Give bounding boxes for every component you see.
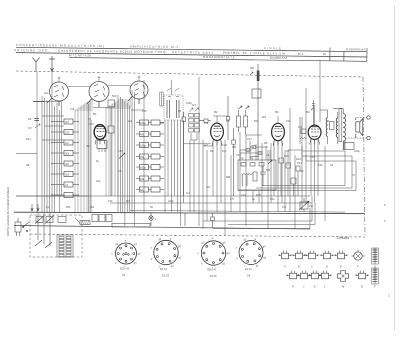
AVC line components x228 — [226, 96, 235, 196]
B1 socket outline — [97, 141, 107, 153]
svg-text:2k2: 2k2 — [90, 205, 95, 209]
left boxes x183 — [182, 112, 186, 196]
svg-text:C15: C15 — [310, 155, 315, 159]
svg-text:S1: S1 — [122, 273, 126, 277]
extra cluster wires — [203, 108, 315, 166]
AVC cluster — [240, 146, 268, 157]
svg-text:C7: C7 — [352, 173, 356, 177]
svg-text:25p: 25p — [96, 179, 101, 183]
svg-text:EF 41: EF 41 — [160, 267, 167, 271]
box under transformer — [344, 143, 354, 150]
svg-text:S2,S3: S2,S3 — [162, 274, 170, 278]
scattered value labels — [26, 91, 360, 209]
svg-text:1M: 1M — [160, 121, 164, 125]
svg-text:M: M — [342, 285, 344, 289]
power supply dashed box — [30, 215, 82, 257]
svg-text:W.: W. — [323, 52, 327, 56]
svg-text:25p: 25p — [270, 197, 275, 201]
svg-text:C26: C26 — [241, 193, 246, 197]
svg-text:4n7: 4n7 — [204, 143, 209, 147]
svg-text:FINALE EL41 5W: FINALE EL41 5W — [250, 51, 285, 55]
mains connector — [15, 218, 21, 236]
svg-text:C21: C21 — [247, 137, 252, 141]
chassis arrows — [31, 204, 39, 211]
svg-text:1M: 1M — [65, 141, 69, 145]
svg-text:Rip: Rip — [309, 204, 313, 208]
tube B2 — [211, 123, 224, 145]
svg-text:25k: 25k — [140, 155, 145, 159]
svg-text:4n7: 4n7 — [186, 191, 191, 195]
svg-text:150: 150 — [250, 145, 255, 149]
svg-text:0,1: 0,1 — [46, 205, 50, 209]
svg-text:C18: C18 — [236, 153, 241, 157]
svg-text:0,1: 0,1 — [65, 183, 69, 187]
svg-text:68k: 68k — [232, 145, 237, 149]
small boxes x110 — [108, 100, 115, 196]
IF2 trimmer matrix — [189, 108, 200, 212]
svg-text:B3: B3 — [275, 110, 279, 114]
tube socket S1 — [116, 243, 137, 264]
svg-text:47k: 47k — [282, 205, 287, 209]
wire bundle mid-right — [190, 60, 325, 236]
svg-text:50k: 50k — [65, 151, 70, 155]
bus components row — [35, 215, 112, 225]
antenna coupling capacitor — [35, 119, 41, 129]
svg-text:R6: R6 — [210, 149, 214, 153]
detector sub-box — [238, 160, 276, 190]
B4 grid network — [300, 100, 315, 144]
svg-text:25p: 25p — [44, 91, 49, 95]
component pictogram row 1 — [279, 248, 379, 264]
svg-text:CF: CF — [28, 126, 32, 130]
filament bus — [14, 226, 310, 230]
svg-text:50k: 50k — [266, 168, 271, 172]
svg-text:0,1: 0,1 — [88, 117, 92, 121]
svg-text:A: A — [284, 265, 286, 269]
svg-text:S6: S6 — [247, 274, 251, 278]
tube B1 — [94, 125, 106, 145]
svg-text:0,1: 0,1 — [226, 119, 230, 123]
svg-text:EL 41: EL 41 — [245, 267, 252, 271]
svg-text:500p: 500p — [140, 165, 146, 169]
svg-text:C25: C25 — [284, 154, 289, 158]
svg-text:H: H — [292, 285, 294, 289]
svg-text:D: D — [326, 265, 328, 269]
svg-text:40k: 40k — [140, 132, 145, 136]
svg-text:M.SEMFIGLIA P.: M.SEMFIGLIA P. — [346, 47, 366, 51]
svg-text:B: B — [298, 265, 300, 269]
svg-text:2M: 2M — [65, 162, 69, 166]
title block — [14, 43, 367, 61]
component pictogram row 2 — [287, 268, 379, 284]
svg-text:C7: C7 — [286, 149, 290, 153]
tube socket S4,S5 — [201, 241, 225, 265]
svg-text:C16: C16 — [222, 143, 227, 147]
tube B3 — [272, 123, 285, 145]
smoothing choke — [320, 110, 328, 144]
wire bundle middle — [118, 80, 144, 226]
capacitor-resistor stack middle — [136, 120, 164, 192]
svg-text:0,5: 0,5 — [230, 197, 234, 201]
speaker — [356, 118, 363, 139]
IF transformer MF1 — [160, 80, 183, 120]
svg-text:50p: 50p — [140, 188, 145, 192]
svg-text:S4,S5: S4,S5 — [210, 274, 218, 278]
main HT bus — [14, 212, 365, 214]
svg-text:68k: 68k — [226, 175, 231, 179]
mid horizontals — [16, 108, 345, 213]
svg-text:DETECTRICE EB41: DETECTRICE EB41 — [172, 50, 213, 55]
terminal strip — [57, 235, 73, 257]
svg-text:(D): (D) — [250, 66, 254, 70]
svg-text:100: 100 — [286, 119, 291, 123]
terminal posts — [345, 116, 370, 140]
grid stopper box B2 — [200, 119, 211, 122]
antenna symbol — [33, 58, 40, 72]
svg-text:R12: R12 — [26, 137, 31, 141]
svg-text:FINALE: FINALE — [264, 46, 281, 50]
svg-text:PARTIE GAUCHE DU SCHEMA RAMEAU: PARTIE GAUCHE DU SCHEMA RAMEAU — [6, 187, 10, 236]
valve V3 top view — [128, 81, 148, 104]
svg-text:500: 500 — [254, 119, 259, 123]
padder capacitors IF2 — [237, 106, 250, 135]
wire bundle IF — [165, 120, 184, 226]
output transformer T1 — [333, 109, 346, 151]
svg-text:B4: B4 — [306, 110, 310, 114]
svg-text:B1: B1 — [93, 112, 97, 116]
resistor stack left labels — [65, 120, 70, 187]
B1 side wires — [89, 104, 95, 212]
page edge line — [394, 6, 396, 330]
svg-text:R12: R12 — [296, 157, 301, 161]
extra labels cluster — [210, 137, 302, 165]
tube B4 — [308, 125, 321, 144]
svg-text:4n7: 4n7 — [192, 103, 197, 107]
svg-text:ECH 42: ECH 42 — [120, 267, 130, 271]
svg-text:R8: R8 — [264, 141, 268, 145]
svg-text:R14: R14 — [297, 161, 302, 165]
svg-text:10n: 10n — [222, 149, 227, 153]
dashed bottom border — [30, 234, 365, 237]
wire bundle left — [37, 72, 62, 213]
svg-text:R15: R15 — [256, 193, 261, 197]
svg-text:500: 500 — [112, 94, 117, 98]
staircase wires under V2 — [75, 100, 93, 212]
svg-text:220p: 220p — [354, 149, 360, 153]
trimmer arrow mid — [119, 153, 125, 159]
stack middle labels — [140, 121, 146, 192]
svg-text:100p: 100p — [140, 121, 146, 125]
svg-text:BA MBA A.M: BA MBA A.M — [270, 56, 288, 60]
box near choke — [330, 122, 335, 130]
svg-text:EBC 41: EBC 41 — [208, 268, 217, 272]
tube socket S2,S3 — [154, 240, 178, 264]
valve V2 top view — [87, 82, 109, 108]
svg-text:C: C — [311, 265, 313, 269]
svg-text:300: 300 — [65, 172, 70, 176]
svg-text:4k7: 4k7 — [65, 120, 70, 124]
svg-text:150: 150 — [318, 163, 323, 167]
svg-text:1M: 1M — [126, 199, 130, 203]
wire horizontals left — [16, 116, 88, 196]
valve V1 top view — [47, 82, 69, 106]
svg-text:R9: R9 — [26, 163, 30, 167]
svg-text:N: N — [361, 285, 363, 289]
svg-text:100: 100 — [142, 109, 147, 113]
svg-text:1M: 1M — [298, 125, 302, 129]
svg-text:10n: 10n — [206, 185, 211, 189]
bottom-right routing — [203, 196, 315, 229]
svg-text:M B GA BAM B7 5A 7.2: M B GA BAM B7 5A 7.2 — [203, 55, 235, 59]
pictogram row 2 labels — [292, 285, 376, 289]
svg-text:250: 250 — [65, 130, 70, 134]
resistor stack left column — [51, 119, 79, 198]
tube socket S6 — [239, 241, 263, 265]
svg-text:B2: B2 — [214, 110, 218, 114]
resistor on bus right — [299, 198, 309, 212]
long narrow box on filament bus — [112, 223, 150, 227]
oscillator choke D — [250, 64, 261, 160]
svg-text:500: 500 — [66, 205, 71, 209]
svg-text:100: 100 — [108, 199, 113, 203]
dashed top border — [16, 71, 363, 77]
svg-text:220p: 220p — [168, 199, 174, 203]
svg-text:P: P — [374, 285, 376, 289]
svg-text:M.1: M.1 — [298, 52, 303, 56]
svg-text:2k2: 2k2 — [128, 119, 133, 123]
earth arrow symbol — [49, 56, 55, 72]
dash-dot right border — [363, 77, 365, 237]
svg-text:2k2: 2k2 — [262, 115, 267, 119]
svg-text:AMPLIFICATRICE M.F.: AMPLIFICATRICE M.F. — [130, 44, 180, 49]
svg-text:10k: 10k — [140, 177, 145, 181]
dial lamp on bus — [149, 213, 153, 226]
svg-text:K: K — [314, 285, 316, 289]
svg-text:Détails: Détails — [337, 235, 349, 240]
feedback loops right — [238, 146, 356, 191]
svg-text:JM: JM — [86, 144, 89, 148]
svg-text:47k: 47k — [204, 121, 209, 125]
svg-text:C15: C15 — [118, 149, 123, 153]
svg-text:200p: 200p — [140, 143, 146, 147]
svg-text:0,5: 0,5 — [118, 169, 122, 173]
svg-text:C4: C4 — [330, 163, 334, 167]
power switches — [22, 213, 52, 248]
svg-text:E: E — [340, 265, 342, 269]
svg-text:R9: R9 — [300, 169, 304, 173]
bus tap components — [185, 213, 214, 228]
svg-text:ANTENNE OSC.: ANTENNE OSC. — [14, 48, 49, 52]
staircase wires under V3 — [106, 100, 131, 196]
svg-text:DF: DF — [28, 117, 32, 121]
svg-text:47k: 47k — [70, 107, 75, 111]
pictogram row 1 labels — [284, 265, 376, 269]
extra cluster boxes — [279, 158, 300, 196]
svg-text:C4: C4 — [266, 153, 270, 157]
svg-text:M. I 2. M7 I 4 2A: M. I 2. M7 I 4 2A — [69, 53, 91, 57]
svg-text:CONVERTISSEUSE: CONVERTISSEUSE — [16, 43, 57, 48]
grid wires top band — [33, 76, 141, 102]
